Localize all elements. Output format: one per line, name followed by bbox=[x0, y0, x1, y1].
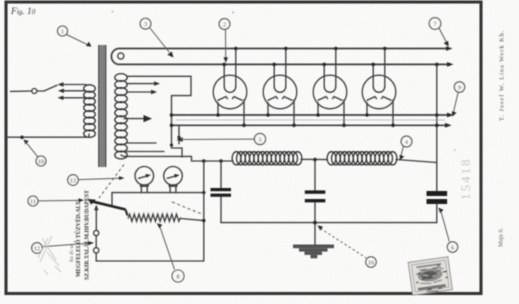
label 7 bbox=[429, 18, 449, 47]
capacitor C2 bbox=[305, 160, 326, 245]
label 9 bbox=[452, 82, 465, 117]
right vertical wire (B+) bbox=[435, 63, 439, 191]
transformer core T1 bbox=[98, 45, 106, 167]
label 11 bbox=[28, 196, 84, 206]
bus line 1 (filament +) bbox=[119, 46, 453, 51]
vacuum tube V1 bbox=[213, 47, 247, 127]
faint intermediate line bbox=[176, 119, 445, 121]
meter M2 bbox=[164, 167, 183, 193]
label 8 (rheostat) bbox=[157, 223, 184, 282]
label 13 bbox=[68, 175, 125, 186]
dashed leader through rheostat area bbox=[172, 202, 203, 215]
dust specks bbox=[112, 11, 456, 151]
filament loop eyelet bbox=[111, 49, 124, 65]
secondary winding S bbox=[115, 74, 127, 159]
label 10 bbox=[24, 140, 47, 166]
primary winding P bbox=[84, 85, 96, 138]
label 12 bbox=[32, 241, 94, 253]
label 4 bbox=[400, 136, 412, 160]
label 2 bbox=[219, 19, 230, 63]
vacuum tube V2 bbox=[263, 47, 297, 127]
junction bus4 start bbox=[170, 124, 174, 128]
handwritten annotation column bbox=[70, 190, 91, 280]
label 5 bbox=[177, 133, 266, 144]
pencil scribbles bbox=[38, 236, 61, 275]
wire W2 meters bus bbox=[112, 191, 206, 206]
primary bottom return wire bbox=[8, 134, 89, 139]
capacitor C1 bbox=[211, 161, 232, 223]
vacuum tube V3 bbox=[313, 47, 347, 127]
return wire bbox=[221, 221, 437, 225]
battery box bottom bbox=[96, 260, 204, 262]
choke coil L2 bbox=[327, 152, 397, 165]
wire W1 secondary bottom to filter bbox=[121, 155, 233, 163]
label 3 bbox=[140, 18, 173, 57]
primary taps with arrows bbox=[58, 82, 87, 100]
coupling arrow (variable tap) bbox=[124, 115, 152, 122]
capacitor C3 bbox=[427, 191, 448, 223]
bus line 2 (filament -) bbox=[119, 62, 454, 67]
wire L1 to L2 bbox=[301, 158, 327, 162]
paper grain bbox=[0, 0, 1, 1]
switch blade bbox=[88, 199, 128, 216]
secondary tap bracket wiring bbox=[127, 76, 192, 157]
meter M1 bbox=[135, 167, 154, 193]
stamp bbox=[408, 257, 452, 295]
label 6 bbox=[438, 208, 457, 253]
battery box right side bbox=[203, 161, 205, 261]
switch S1 (primary tap selector) bbox=[11, 85, 58, 93]
rheostat R1 bbox=[128, 214, 205, 222]
label 1 (core) bbox=[58, 26, 92, 47]
ground symbol bbox=[293, 245, 334, 259]
contact arrow and terminals bbox=[94, 205, 99, 261]
label 16 (ground) bbox=[317, 225, 376, 267]
bus line 4 (grid return) bbox=[172, 123, 452, 128]
dashed leader to blade bbox=[99, 165, 124, 199]
bus line 3 (plate supply) bbox=[172, 113, 454, 118]
wire L2 output bbox=[396, 160, 437, 163]
choke coil L1 bbox=[232, 152, 302, 165]
vacuum tube V4 bbox=[362, 47, 396, 127]
junction bus3 start bbox=[170, 113, 174, 117]
